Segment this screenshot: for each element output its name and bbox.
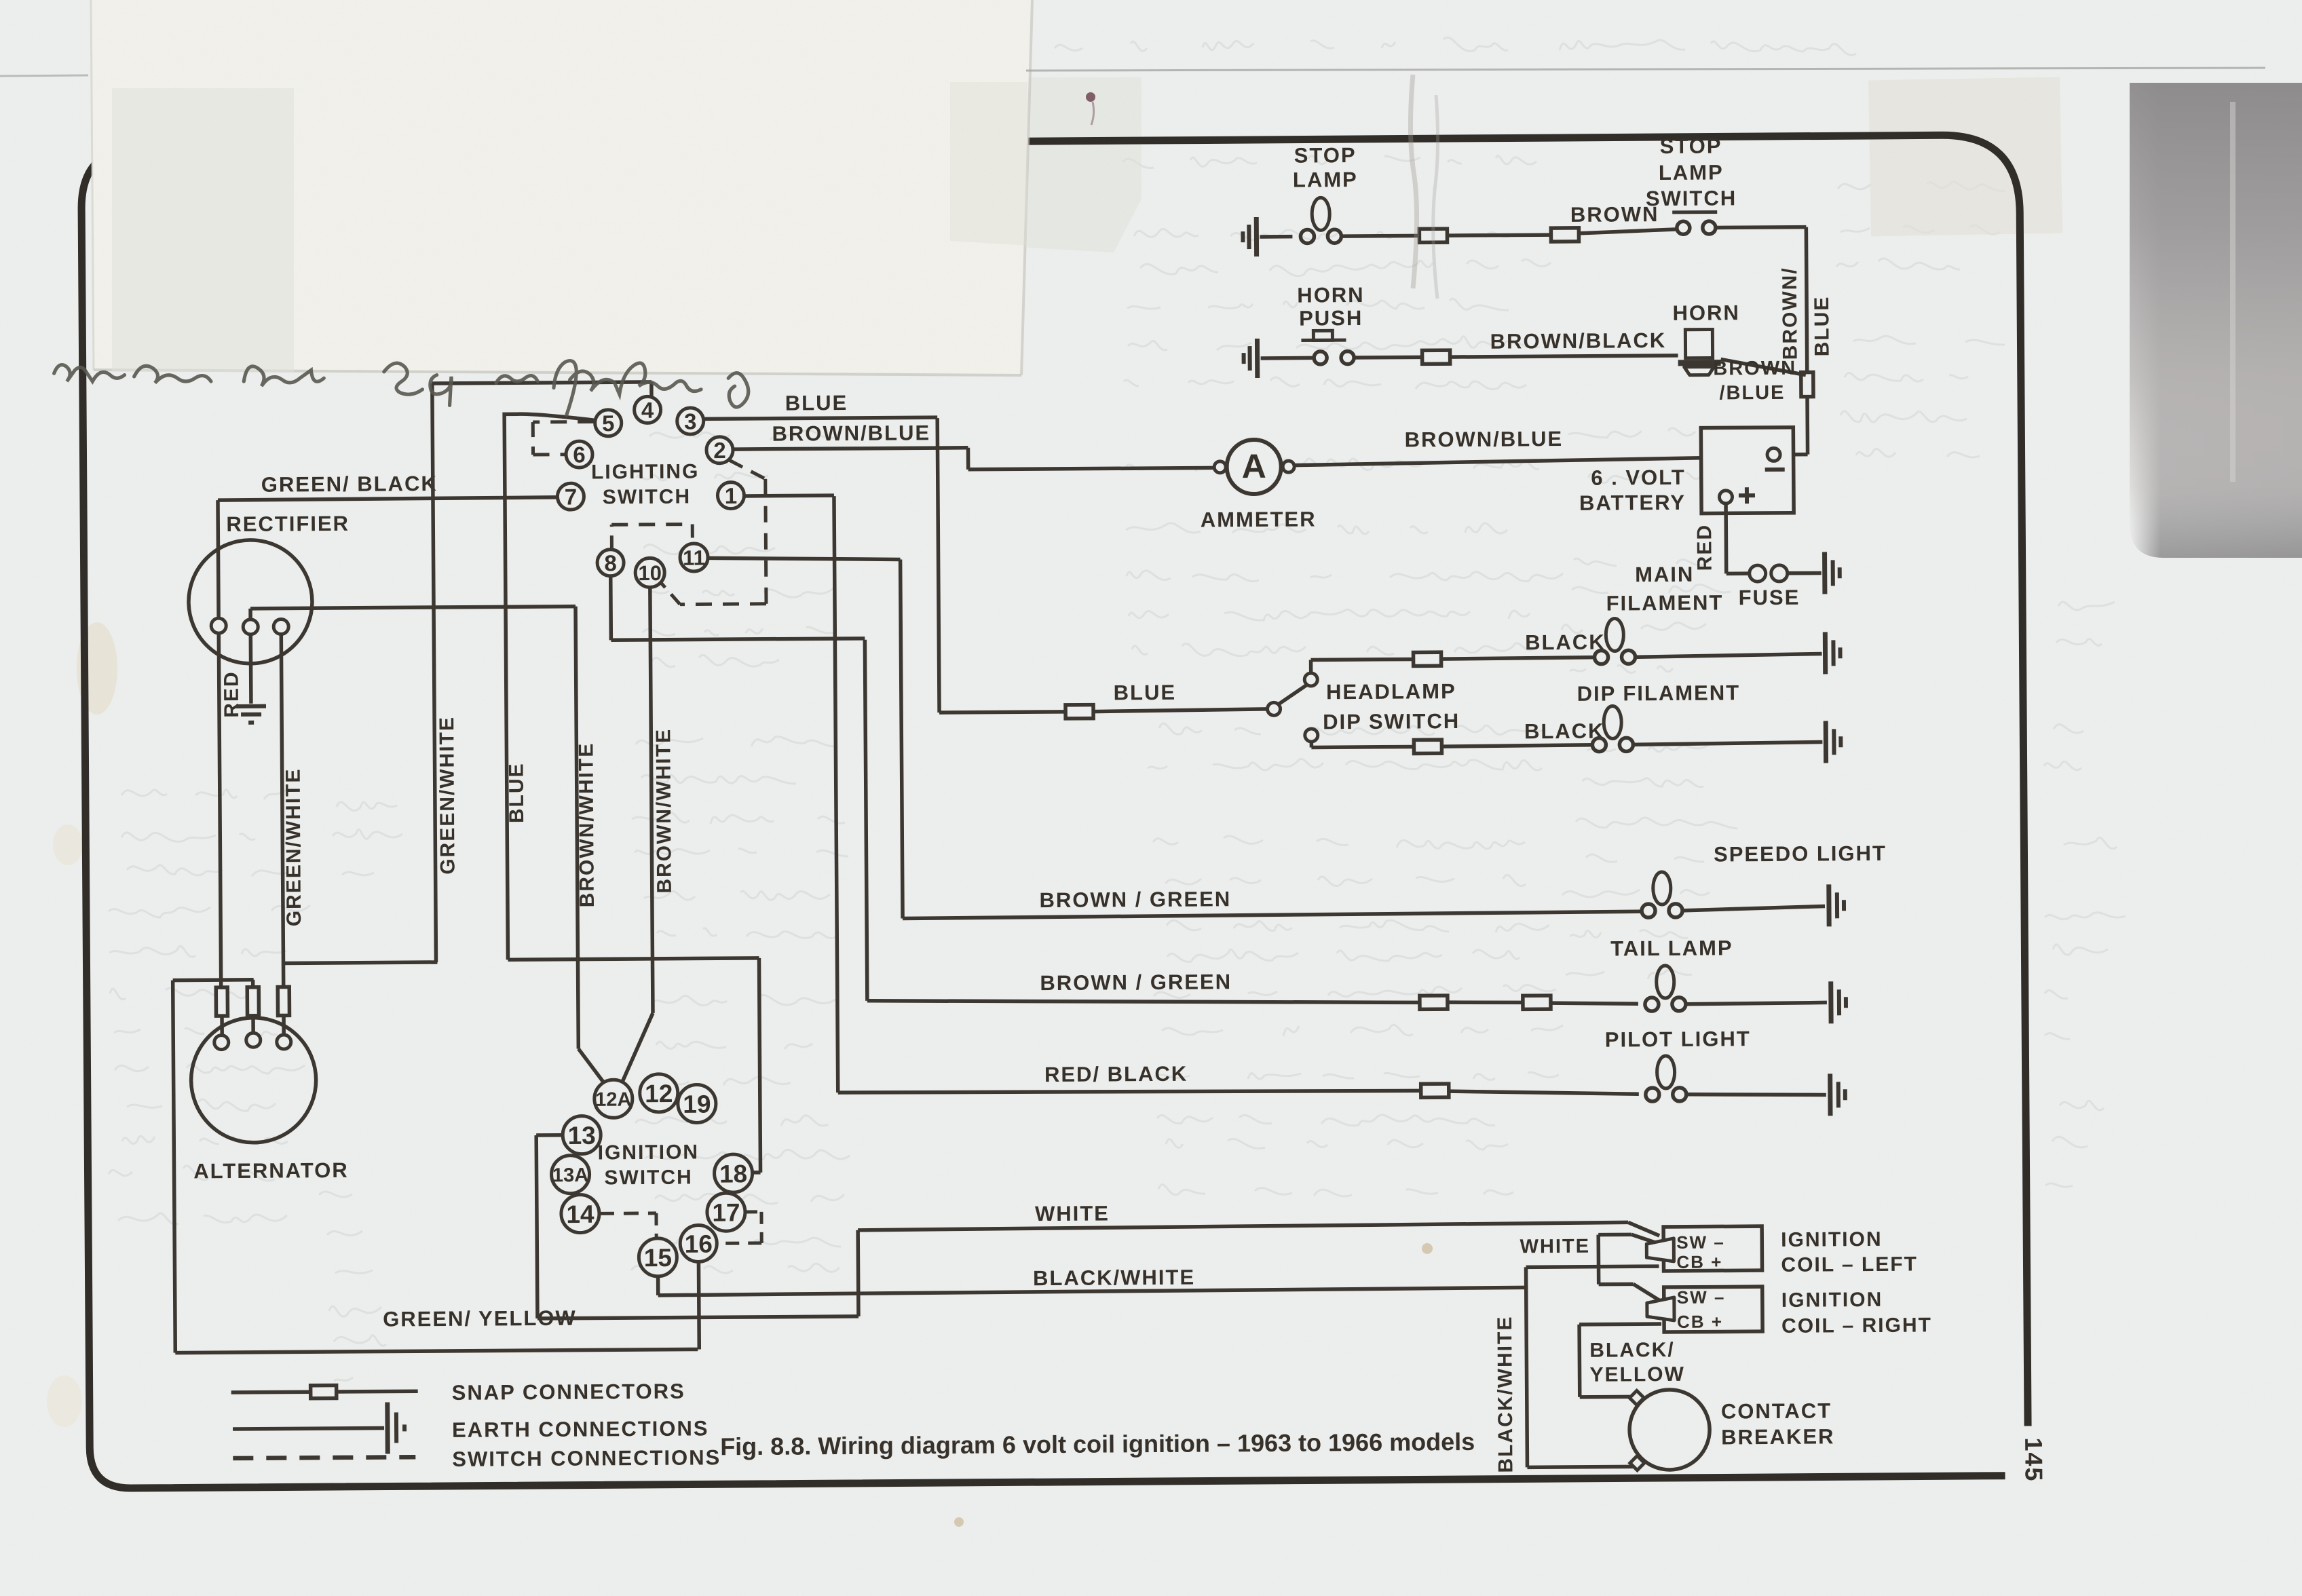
faint handwriting bleed-through on base paper: [109, 37, 2126, 1381]
wire horn to brown/blue vertical: [1721, 359, 1806, 376]
lighting switch terminal 10: [635, 558, 664, 587]
wire from terminal 1: [744, 493, 834, 497]
paper texture: [0, 0, 1, 1]
wire BROWN/GREEN tail lamp: [865, 640, 867, 1001]
lighting switch terminal 11: [680, 544, 708, 571]
earth connection (tail lamp): [1828, 981, 1833, 1023]
handwriting on sheet edge (sur phare): [54, 361, 749, 415]
bulb TAIL LAMP: [1645, 997, 1659, 1011]
wire to snap connector (horn): [1355, 356, 1422, 360]
wire stop lamp row: [1260, 235, 1292, 239]
dashed switch connection 2-10: [730, 460, 766, 479]
wire stubs fuses to alternator pins: [220, 1016, 224, 1036]
wire fuse to earth: [1788, 571, 1822, 575]
wire from terminal 16 to green/yellow: [697, 1262, 701, 1349]
earth connection (main filament): [1823, 632, 1828, 674]
bulb STOP LAMP: [1300, 229, 1314, 243]
dashed switch connection 5-6: [533, 420, 594, 424]
wire BLUE from terminal 3: [704, 417, 937, 419]
rectifier D1 body: [188, 539, 312, 664]
page border frame: [81, 135, 2029, 1489]
wire from terminal 8: [609, 575, 613, 640]
ignition switch terminal 12: [640, 1074, 678, 1112]
battery BT1 6 volt: [1701, 427, 1794, 514]
bulb DIP FILAMENT: [1592, 738, 1606, 752]
wire branch to alternator-18 line: [283, 962, 437, 964]
alternator enclosure wires: [173, 978, 254, 982]
lighting switch terminal 5: [595, 410, 622, 436]
wire BROWN/BLUE from terminal 2: [734, 448, 968, 449]
earth connection (pilot light): [1828, 1073, 1832, 1116]
fuse link 1 (green/black): [216, 987, 227, 1016]
wire GREEN/YELLOW: [175, 1349, 698, 1352]
wire BLACK/WHITE vertical to breaker: [1526, 1267, 1528, 1467]
ammeter A1: [1214, 461, 1226, 473]
contact breaker terminal upper: [1629, 1390, 1644, 1405]
wire from terminal 5 (BLUE vertical): [504, 413, 599, 959]
ignition switch terminal 16: [680, 1225, 717, 1261]
page top faint edge line: [1026, 68, 2265, 71]
ignition switch terminal 13: [563, 1116, 601, 1154]
wire tail to bulb: [1551, 1002, 1638, 1004]
wire box bottom: [537, 1316, 858, 1318]
dashed switch connection 14-15: [599, 1211, 656, 1215]
snap connector (blue): [1065, 705, 1093, 719]
wire 747 corner to ignition 18: [508, 958, 759, 959]
legend earth connections symbol: [233, 1428, 384, 1429]
alternator pin 2: [246, 1033, 261, 1047]
wire to stop lamp switch: [1579, 229, 1677, 233]
ignition switch terminal 15: [639, 1238, 677, 1276]
wire to snap connector: [1342, 234, 1419, 238]
fuse link 2 with stub: [251, 980, 255, 987]
wire tail to earth: [1686, 1002, 1827, 1004]
tape piece top right corner: [1868, 77, 2062, 237]
rectifier pin 2 with stub: [248, 609, 252, 620]
wire green/black vertical: [218, 500, 221, 987]
snap connector (vertical, brown/blue): [1801, 373, 1813, 397]
ignition switch terminal 17: [707, 1193, 745, 1231]
ignition switch terminal 18: [714, 1154, 752, 1192]
snap connector (horn): [1422, 350, 1450, 364]
alternator pin 3: [277, 1035, 291, 1049]
snap connector (tail 1): [1420, 995, 1448, 1009]
wire BROWN segment: [1447, 235, 1551, 235]
tape piece on overlay sheet left: [112, 88, 294, 372]
fuse link 3 (green/white): [278, 987, 289, 1015]
tape piece at overlay right edge (on sheet): [950, 82, 1027, 246]
wire pilot to bulb: [1449, 1090, 1639, 1095]
earth connection (dip filament): [1824, 721, 1828, 763]
rectifier pin 1: [211, 618, 226, 633]
dashed switch connection 17-16: [745, 1210, 761, 1213]
wire GREEN/WHITE from rectifier pin 3: [281, 634, 283, 987]
wire CB+ branch: [1526, 1266, 1659, 1267]
alternator pin 1: [214, 1035, 229, 1050]
ignition switch terminal 12A: [595, 1080, 633, 1118]
wire tail mid: [1448, 1002, 1523, 1003]
ignition coil T2 right: [1664, 1287, 1762, 1332]
wire from terminal 15 (BLACK/WHITE): [656, 1276, 660, 1295]
wire from terminal 11: [708, 556, 901, 560]
rectifier pin 3: [273, 619, 288, 634]
wire blue to dip switch: [1093, 709, 1267, 712]
wire GREEN/WHITE vertical (lighting box left): [432, 383, 436, 962]
smudge marks top middle: [1410, 75, 1416, 288]
wire BLUE horizontal: [939, 712, 1065, 712]
headlamp dip switch SW1: [1267, 702, 1280, 715]
coil feed bracket (white): [1596, 1235, 1600, 1285]
wire box right up to WHITE: [856, 1230, 860, 1316]
wire black to dip bulb: [1441, 745, 1593, 746]
wire speedo to earth: [1682, 906, 1825, 910]
wire from terminal 10 (BROWN/WHITE): [650, 588, 653, 1013]
tape piece right of sheet edge (on page): [1027, 77, 1141, 252]
wire main filament (BLACK): [1309, 660, 1313, 673]
lighting switch terminal 3: [677, 408, 704, 434]
lighting switch terminal 7: [557, 483, 584, 510]
earth connection (stop lamp): [1254, 217, 1259, 256]
wire dip bulb to earth: [1632, 742, 1822, 744]
bulb SPEEDO LIGHT: [1642, 904, 1655, 917]
wire pilot to earth: [1686, 1093, 1826, 1095]
wire BROWN/GREEN speedo: [901, 559, 903, 918]
earth connection (horn push): [1255, 339, 1260, 378]
contact breaker terminal lower: [1630, 1456, 1644, 1470]
lighting switch terminal 8: [597, 550, 624, 576]
snap connector (pilot): [1421, 1084, 1449, 1097]
contact breaker CB1 body: [1629, 1390, 1710, 1470]
wire from terminal 13 (box left): [536, 1133, 564, 1137]
snap connector (main filament): [1413, 652, 1441, 666]
wire horn row: [1261, 356, 1314, 360]
ignition switch terminal 13A: [551, 1156, 589, 1194]
wire rectifier DC out to ignition (BROWN/WHITE): [250, 607, 575, 609]
bulb PILOT LIGHT: [1646, 1088, 1659, 1101]
legend snap connectors symbol: [231, 1390, 311, 1394]
wire RED/BLACK pilot: [834, 496, 838, 1092]
wire BLACK/YELLOW: [1579, 1322, 1661, 1326]
stain marks on paper: [77, 622, 117, 715]
lighting switch terminal 4: [634, 396, 660, 423]
dashed switch connection 8-11: [610, 525, 614, 549]
stop lamp switch contacts: [1677, 221, 1690, 234]
ignition switch terminal 19: [678, 1084, 716, 1122]
wire BLUE vertical from terminal 3: [937, 418, 939, 712]
horn symbol: [1685, 330, 1712, 358]
lighting switch terminal 1: [717, 482, 744, 508]
wire WHITE to coils: [858, 1222, 1628, 1230]
ignition switch terminal 14: [561, 1194, 599, 1232]
earth connection (rectifier, RED): [236, 704, 266, 708]
wire GREEN/BLACK horizontal (rectifier to terminal 7): [218, 497, 559, 500]
wire black to main bulb: [1441, 658, 1596, 660]
lighting switch box top wire: [432, 382, 652, 383]
wire BROWN/BLACK: [1450, 356, 1678, 357]
wire dip filament (BLACK): [1310, 741, 1314, 747]
wire RED battery positive: [1724, 503, 1728, 573]
legend switch connections symbol: [233, 1457, 415, 1458]
overlay paper sheet top-left: [91, 0, 1032, 375]
earth connection (speedo): [1826, 884, 1831, 926]
horn push button: [1314, 351, 1327, 364]
earth connection (battery): [1822, 552, 1827, 594]
snap connector (stop lamp 2): [1551, 228, 1579, 242]
lighting switch terminal 6: [566, 441, 592, 468]
bulb MAIN FILAMENT: [1594, 651, 1608, 664]
fuse FS1: [1750, 565, 1766, 582]
wire BROWN/BLUE from switch to corner: [1716, 225, 1806, 229]
snap connector (dip filament): [1414, 740, 1441, 753]
snap connector (tail 2): [1523, 995, 1551, 1009]
lighting switch terminal 2: [706, 437, 733, 463]
snap connector (stop lamp 1): [1419, 229, 1447, 242]
alternator G1 body: [191, 1017, 316, 1143]
wire brown/blue vertical to battery: [1805, 397, 1809, 455]
wire main bulb to earth: [1635, 653, 1822, 657]
ignition coil T1 left: [1663, 1226, 1762, 1271]
wire BROWN/BLUE ammeter to battery: [1295, 457, 1768, 465]
